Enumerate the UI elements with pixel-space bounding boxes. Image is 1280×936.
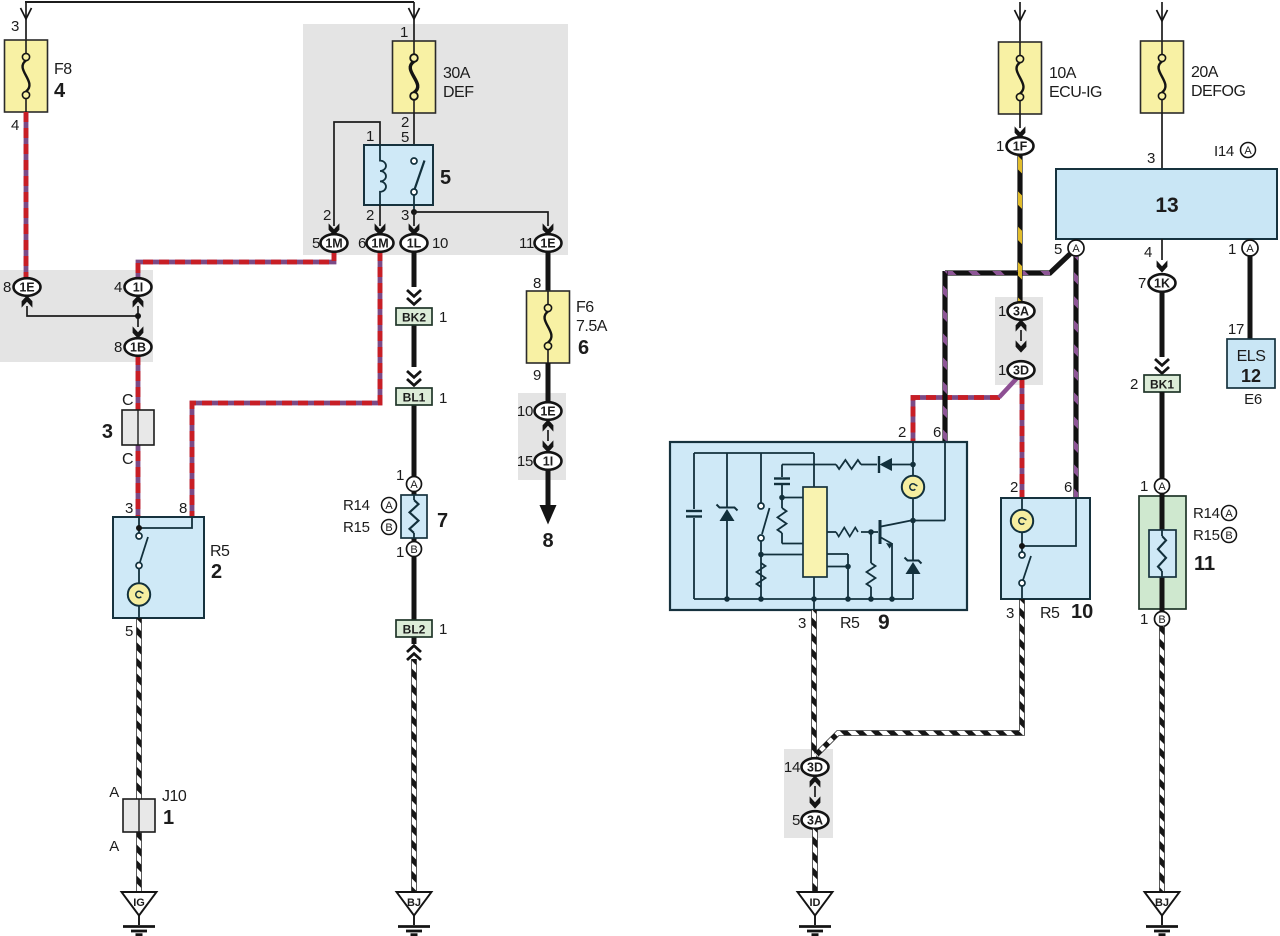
svg-text:3: 3 [102,421,113,443]
svg-text:2: 2 [898,424,906,441]
svg-text:BJ: BJ [1155,897,1169,909]
svg-text:B: B [410,544,417,556]
svg-text:8: 8 [114,339,122,356]
svg-text:13: 13 [1155,194,1178,217]
svg-text:BK1: BK1 [1150,378,1174,392]
svg-text:BJ: BJ [407,897,421,909]
svg-text:5: 5 [125,623,133,640]
svg-text:BL2: BL2 [403,623,426,637]
svg-text:DEF: DEF [443,84,474,101]
svg-text:1E: 1E [540,237,555,251]
svg-text:J10: J10 [162,788,187,805]
svg-text:R5: R5 [210,543,230,560]
svg-text:1: 1 [996,138,1004,155]
svg-text:R5: R5 [1040,605,1060,622]
svg-text:2: 2 [323,207,331,224]
svg-text:1: 1 [439,390,447,407]
svg-text:1I: 1I [543,455,553,469]
svg-text:1: 1 [439,309,447,326]
svg-text:R14: R14 [343,497,370,514]
svg-text:1: 1 [1140,611,1148,628]
svg-text:1: 1 [1228,241,1236,258]
svg-text:ECU-IG: ECU-IG [1049,84,1102,101]
svg-text:2: 2 [1010,479,1018,496]
svg-text:10A: 10A [1049,65,1077,82]
svg-text:3D: 3D [807,761,823,775]
svg-text:4: 4 [1144,244,1152,261]
svg-text:1E: 1E [540,405,555,419]
svg-text:15: 15 [517,453,533,470]
svg-text:2: 2 [1130,376,1138,393]
svg-text:R15: R15 [1193,527,1220,544]
svg-text:DEFOG: DEFOG [1191,83,1245,100]
svg-text:7: 7 [437,510,448,532]
svg-text:1: 1 [396,544,404,561]
svg-text:R14: R14 [1193,505,1220,522]
svg-text:F6: F6 [576,299,594,316]
svg-text:9: 9 [533,367,541,384]
svg-text:A: A [385,500,393,512]
svg-text:30A: 30A [443,65,471,82]
svg-text:E6: E6 [1244,391,1262,408]
svg-text:R5: R5 [840,615,860,632]
svg-text:5: 5 [312,235,320,252]
svg-text:A: A [1244,145,1252,157]
svg-text:7: 7 [1138,275,1146,292]
svg-text:2: 2 [366,207,374,224]
svg-text:6: 6 [578,337,589,359]
svg-text:1L: 1L [407,237,422,251]
svg-text:A: A [1072,243,1080,255]
svg-text:A: A [109,838,119,855]
svg-text:10: 10 [517,403,533,420]
svg-text:3: 3 [798,615,806,632]
svg-text:C: C [122,392,133,409]
svg-text:ELS: ELS [1237,348,1266,365]
svg-text:1E: 1E [19,281,34,295]
svg-text:5: 5 [401,129,409,146]
svg-text:A: A [410,479,418,491]
svg-text:1M: 1M [325,237,342,251]
svg-text:1M: 1M [371,237,388,251]
svg-text:BL1: BL1 [403,391,426,405]
svg-text:6: 6 [933,424,941,441]
svg-text:17: 17 [1228,321,1244,338]
svg-text:3: 3 [401,207,409,224]
svg-text:3: 3 [1147,150,1155,167]
svg-text:6: 6 [358,235,366,252]
svg-text:A: A [109,784,119,801]
svg-text:3A: 3A [1013,305,1029,319]
svg-text:B: B [1225,530,1232,542]
svg-text:20A: 20A [1191,64,1219,81]
svg-text:8: 8 [542,530,553,552]
svg-text:1: 1 [998,303,1006,320]
svg-text:C: C [122,451,133,468]
svg-text:11: 11 [519,235,534,252]
svg-text:1: 1 [1140,478,1148,495]
svg-text:5: 5 [792,812,800,829]
svg-text:3: 3 [1006,605,1014,622]
svg-text:A: A [1246,243,1254,255]
svg-text:2: 2 [211,561,222,583]
svg-text:10: 10 [432,235,448,252]
svg-text:IG: IG [133,897,145,909]
svg-text:9: 9 [878,611,890,634]
svg-text:1: 1 [396,467,404,484]
svg-text:F8: F8 [54,61,72,78]
svg-text:1I: 1I [133,281,143,295]
svg-text:1: 1 [366,128,374,145]
svg-text:1: 1 [163,807,174,829]
svg-text:B: B [1158,614,1165,626]
svg-text:ID: ID [810,897,821,909]
svg-text:8: 8 [533,275,541,292]
svg-text:1B: 1B [130,341,146,355]
svg-text:12: 12 [1241,366,1261,386]
svg-text:A: A [1158,481,1166,493]
svg-text:A: A [1225,508,1233,520]
svg-text:1F: 1F [1013,140,1028,154]
svg-text:1: 1 [400,24,408,41]
svg-text:3: 3 [11,18,19,35]
svg-text:3A: 3A [807,814,823,828]
svg-text:3: 3 [125,500,133,517]
svg-text:5: 5 [440,167,451,189]
svg-text:8: 8 [179,500,187,517]
svg-text:1: 1 [998,362,1006,379]
svg-text:B: B [385,522,392,534]
svg-text:1: 1 [439,621,447,638]
svg-text:4: 4 [11,117,19,134]
svg-text:4: 4 [114,279,122,296]
svg-text:4: 4 [54,80,66,102]
svg-text:6: 6 [1064,479,1072,496]
svg-text:8: 8 [3,279,11,296]
svg-text:14: 14 [784,759,800,776]
svg-text:3D: 3D [1013,364,1029,378]
svg-text:5: 5 [1054,241,1062,258]
svg-text:10: 10 [1071,601,1093,623]
svg-text:7.5A: 7.5A [576,318,608,335]
svg-text:11: 11 [1194,553,1215,575]
svg-text:1K: 1K [1154,277,1170,291]
svg-text:BK2: BK2 [402,311,426,325]
svg-text:I14: I14 [1214,143,1234,160]
svg-text:R15: R15 [343,519,370,536]
